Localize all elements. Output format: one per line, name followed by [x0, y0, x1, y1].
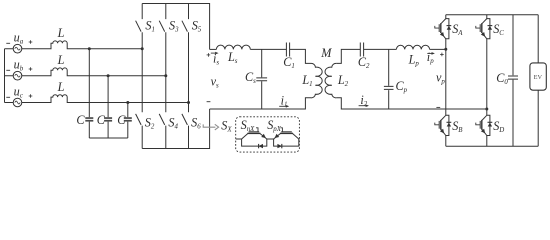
polarity + vp — [440, 53, 444, 55]
svg-text:C: C — [117, 113, 126, 127]
wire bridge top rail — [446, 14, 538, 16]
wire right leg — [486, 15, 488, 146]
svg-text:L: L — [57, 53, 65, 67]
polarity - vs — [207, 101, 211, 103]
wire leg phase 1/2 — [141, 4, 143, 149]
wire leg phase 3/4 — [165, 4, 167, 149]
wire box left stub — [236, 138, 242, 140]
svg-text:C: C — [76, 113, 85, 127]
capacitor C0 — [508, 15, 518, 146]
wire cap bank bottom rail — [89, 137, 128, 139]
svg-text:C: C — [97, 113, 106, 127]
wire leg phase 5/6 — [188, 4, 190, 149]
current i1 arrow — [279, 105, 288, 107]
ac source ub — [13, 71, 22, 80]
inductor Lp — [396, 45, 429, 49]
polarity + uc — [29, 95, 33, 97]
wire box right stub — [298, 138, 301, 140]
polarity + vs — [207, 54, 211, 56]
wire matrix top rail — [142, 4, 209, 50]
ac source ua — [13, 44, 22, 53]
capacitor Cp — [384, 49, 394, 109]
wire left leg — [445, 15, 447, 146]
wire phase a with inductor L — [5, 41, 143, 49]
svg-text:L: L — [57, 26, 65, 40]
wire tank bottom (primary) — [210, 98, 311, 109]
wire secondary bottom lead — [336, 98, 487, 109]
node phase joins leg — [141, 47, 144, 50]
transformer secondary winding L2 — [325, 63, 336, 97]
switch S1 — [136, 21, 142, 32]
igbt SB — [441, 115, 446, 120]
switch S6 — [182, 114, 188, 125]
switch S2 — [136, 114, 142, 125]
load EV box — [530, 63, 546, 90]
igbt SnX — [242, 133, 248, 139]
wire cap tap b — [107, 76, 109, 118]
current i2 arrow — [359, 105, 368, 107]
polarity - ua — [6, 42, 10, 44]
dashed box bidirectional switch detail — [236, 117, 300, 152]
capacitor C (a) — [85, 117, 93, 119]
polarity - uc — [6, 96, 10, 98]
node tap b — [107, 74, 110, 77]
wire vs+ output — [210, 48, 217, 50]
ac source uc — [13, 98, 22, 107]
svg-text:L: L — [57, 80, 65, 94]
node tap c — [126, 101, 129, 104]
wire secondary top lead — [336, 49, 360, 63]
current is arrow — [211, 52, 217, 54]
wire bridge bottom rail — [446, 145, 538, 147]
current ip arrow — [427, 52, 433, 54]
polarity - ub — [6, 69, 10, 71]
capacitor Cs — [256, 49, 267, 109]
wire C2 to Lp — [364, 48, 396, 50]
wire top line Ls to C1 — [250, 48, 286, 50]
node tank to right leg — [485, 108, 488, 111]
capacitor C1 — [286, 43, 289, 57]
switch S4 — [159, 114, 165, 125]
wire C1 to transformer — [290, 49, 311, 63]
wire cap tap a — [88, 49, 90, 118]
wire phase b with inductor L — [5, 68, 166, 76]
polarity + ub — [29, 68, 33, 70]
switch S5 — [182, 21, 188, 32]
node tap a — [88, 47, 91, 50]
switch S3 — [159, 21, 165, 32]
callout arrow Sx — [203, 124, 215, 127]
inductor Ls — [216, 45, 250, 49]
igbt SD — [482, 115, 487, 120]
wire box middle — [267, 138, 274, 140]
svg-text:EV: EV — [534, 74, 543, 81]
capacitor C (c) — [124, 117, 132, 119]
polarity + ua — [29, 41, 33, 43]
wire cap tap c — [127, 103, 129, 118]
igbt SC — [482, 19, 487, 24]
wire matrix bottom rail — [142, 109, 209, 149]
polarity - vp — [436, 106, 440, 108]
capacitor C2 — [360, 43, 363, 57]
wire EV leads — [537, 15, 539, 146]
wire phase c with inductor L — [5, 95, 189, 103]
node phase joins leg — [187, 101, 190, 104]
node tank to left leg — [444, 48, 447, 51]
igbt SpX — [292, 133, 298, 139]
neutral bus wire — [4, 49, 6, 103]
capacitor C (b) — [104, 117, 112, 119]
wire Lp to bridge — [430, 48, 446, 50]
igbt SA — [441, 19, 446, 24]
node phase joins leg — [164, 74, 167, 77]
svg-text:M: M — [320, 46, 332, 60]
transformer primary winding L1 — [311, 63, 322, 97]
